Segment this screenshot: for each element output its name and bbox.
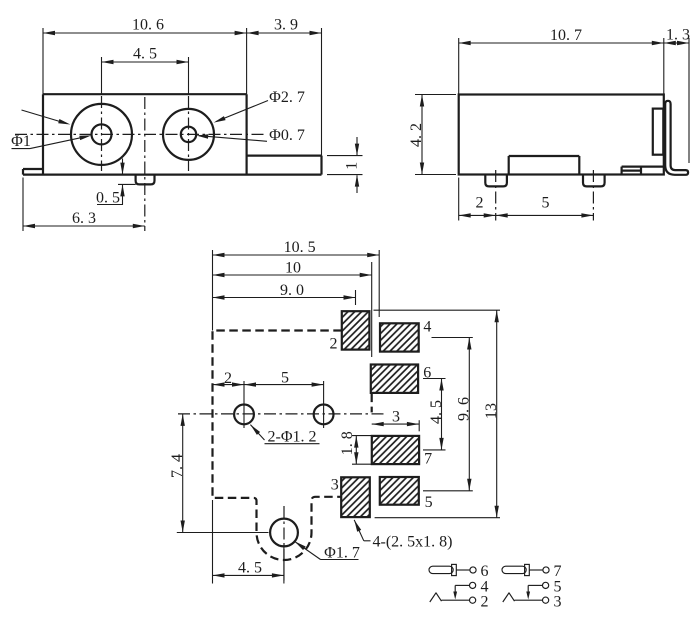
svg-text:5: 5 xyxy=(281,370,289,387)
svg-text:3: 3 xyxy=(331,477,339,494)
svg-text:2-Φ1. 2: 2-Φ1. 2 xyxy=(267,429,316,446)
svg-text:1. 3: 1. 3 xyxy=(666,27,690,44)
svg-text:Φ1: Φ1 xyxy=(11,133,31,150)
svg-text:3: 3 xyxy=(392,409,400,426)
svg-text:Φ2. 7: Φ2. 7 xyxy=(269,89,305,106)
svg-text:2: 2 xyxy=(224,370,232,387)
svg-text:10. 5: 10. 5 xyxy=(284,239,316,256)
svg-text:10: 10 xyxy=(285,260,301,277)
svg-text:6: 6 xyxy=(423,365,431,382)
svg-text:10. 6: 10. 6 xyxy=(132,17,164,34)
svg-text:3: 3 xyxy=(554,594,562,611)
svg-text:13: 13 xyxy=(483,403,500,419)
svg-text:1. 8: 1. 8 xyxy=(339,431,356,455)
svg-text:4: 4 xyxy=(423,319,431,336)
svg-text:7. 4: 7. 4 xyxy=(169,454,186,478)
svg-text:6. 3: 6. 3 xyxy=(72,210,96,227)
svg-text:2: 2 xyxy=(330,336,338,353)
svg-text:4. 5: 4. 5 xyxy=(238,560,262,577)
svg-text:4. 2: 4. 2 xyxy=(408,123,425,147)
svg-text:5: 5 xyxy=(542,195,550,212)
svg-text:2: 2 xyxy=(476,195,484,212)
svg-text:4. 5: 4. 5 xyxy=(428,400,445,424)
svg-text:0. 5: 0. 5 xyxy=(96,190,120,207)
svg-text:9. 6: 9. 6 xyxy=(456,397,473,421)
svg-text:4. 5: 4. 5 xyxy=(133,46,157,63)
svg-text:10. 7: 10. 7 xyxy=(550,27,582,44)
svg-text:9. 0: 9. 0 xyxy=(280,282,304,299)
svg-text:Φ0. 7: Φ0. 7 xyxy=(269,127,305,144)
svg-text:7: 7 xyxy=(424,450,432,467)
svg-text:3. 9: 3. 9 xyxy=(274,17,298,34)
svg-text:6: 6 xyxy=(481,563,489,580)
svg-text:2: 2 xyxy=(481,594,489,611)
svg-text:4-(2. 5x1. 8): 4-(2. 5x1. 8) xyxy=(373,534,453,551)
svg-text:5: 5 xyxy=(425,494,433,511)
svg-text:1: 1 xyxy=(344,162,361,170)
svg-text:Φ1. 7: Φ1. 7 xyxy=(324,545,360,562)
svg-text:7: 7 xyxy=(554,563,562,580)
